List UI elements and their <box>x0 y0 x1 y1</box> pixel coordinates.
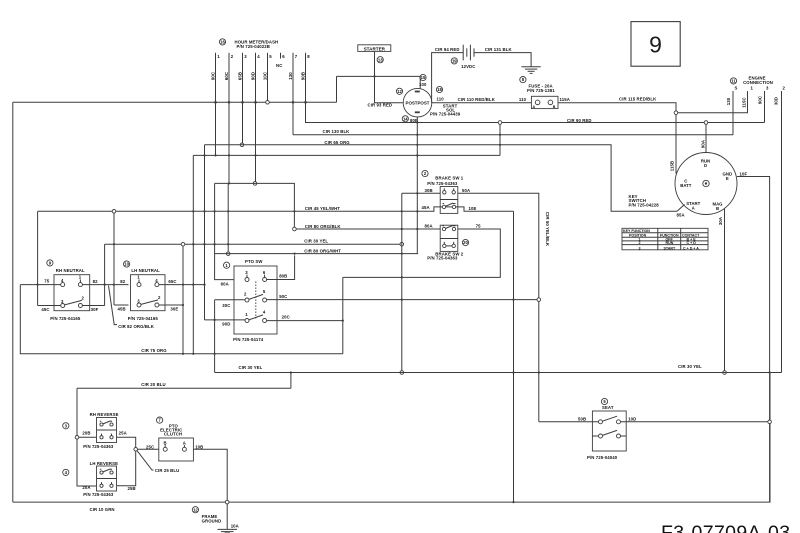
junction 30F riser/82 wire <box>104 284 106 286</box>
wire 45C riser from CIR45 to 45C wire <box>37 211 39 305</box>
wire 30E from LH neutral <box>159 304 183 306</box>
svg-text:P/N 725-04228: P/N 725-04228 <box>629 203 660 208</box>
key switch S1 body <box>675 153 737 215</box>
svg-text:CIR 10 GRN: CIR 10 GRN <box>90 507 115 512</box>
wire bus feed to solenoid top <box>337 76 421 88</box>
solenoid bottom vertical wire <box>416 117 418 254</box>
leader line CIR 25 BLU <box>137 451 154 470</box>
junction solenoid vertical/horiz2 <box>416 154 418 156</box>
battery B1 12VDC <box>461 45 475 69</box>
wire 25 node down to LH reverse 25B <box>117 451 136 486</box>
svg-text:50B: 50B <box>578 417 586 422</box>
hour meter pin 2 <box>229 53 234 103</box>
wire 75 from brake sw2 down-left <box>343 229 501 277</box>
junction 75org/183 <box>182 353 184 355</box>
svg-text:110: 110 <box>437 97 445 102</box>
circled 20 (brake sw 2) <box>462 239 468 245</box>
wire pin4 down to node on horiz3 <box>255 102 257 181</box>
junction 10grn/10E vertical <box>512 501 514 503</box>
wire x214 vertical horiz3 to 60A <box>215 183 234 279</box>
engine connection label <box>743 76 773 86</box>
svg-text:P/N 725-04363: P/N 725-04363 <box>83 492 114 497</box>
LH neutral switch body <box>131 275 166 311</box>
wire 65C from LH neutral <box>159 284 205 286</box>
wire 50C from pin5 to 50 node <box>267 299 537 301</box>
svg-text:CIR 115 RED/BLK: CIR 115 RED/BLK <box>619 96 657 101</box>
svg-text:D: D <box>704 163 707 168</box>
svg-text:C + D: C + D <box>687 241 697 245</box>
svg-text:30A: 30A <box>718 217 723 225</box>
bus junction pin2 <box>228 101 231 104</box>
circled 9 (RH neutral) <box>47 260 53 266</box>
junction 75org/193 <box>192 353 194 355</box>
seat switch body <box>592 411 626 451</box>
svg-text:GROUND: GROUND <box>202 519 222 524</box>
bus junction pin4 <box>254 101 257 104</box>
junction 65C/183 <box>182 284 184 286</box>
svg-text:P/N 725-04439: P/N 725-04439 <box>430 111 461 116</box>
circled 5 (seat) <box>601 398 607 404</box>
junction 45/pin2 vertical <box>227 210 229 212</box>
svg-text:CIR 30 YEL: CIR 30 YEL <box>239 365 263 370</box>
svg-text:115C: 115C <box>742 97 747 107</box>
wire 20 BLU down to reverse switches <box>77 388 97 486</box>
open node pin3 on CIR 65 <box>240 143 244 147</box>
junction 45/ladder1 <box>192 210 194 212</box>
open node pin2 end on 80 ORG/WHT <box>226 252 230 256</box>
svg-text:20B: 20B <box>82 431 90 436</box>
svg-text:10F: 10F <box>740 171 748 176</box>
junction riser/65 org <box>499 144 501 146</box>
svg-text:RH REVERSE: RH REVERSE <box>90 412 119 417</box>
svg-text:90B: 90B <box>300 72 305 80</box>
engine pin S <box>733 86 738 135</box>
svg-text:30B: 30B <box>425 188 433 193</box>
svg-text:25B: 25B <box>128 486 136 491</box>
wire 90A node down to key switch top <box>705 124 707 152</box>
label FRAME GROUND <box>202 514 222 524</box>
open node 30 yel right end <box>400 242 404 246</box>
wire 10B from clutch to ground drop <box>193 449 227 500</box>
svg-text:BRAKE SW 1: BRAKE SW 1 <box>435 175 463 180</box>
svg-text:90A: 90A <box>700 140 705 148</box>
svg-text:25C: 25C <box>146 444 154 449</box>
wire ladder x193 (horiz2 down to 75 org) <box>192 155 194 353</box>
junction 45/ladder2 <box>203 210 205 212</box>
frame ground symbol <box>218 529 238 533</box>
svg-text:B: B <box>164 440 167 445</box>
svg-text:PTO SW: PTO SW <box>245 259 263 264</box>
wire horiz3 <box>215 183 295 227</box>
svg-text:100: 100 <box>419 82 427 87</box>
open node 30A on 30 YEL <box>723 371 727 375</box>
svg-text:30C: 30C <box>222 303 230 308</box>
circled 14 <box>402 116 408 122</box>
junction x214/75org <box>214 353 216 355</box>
svg-text:10D: 10D <box>628 417 636 422</box>
brake switch 1 body <box>440 187 458 214</box>
junction 80wht/pto riser <box>294 253 296 255</box>
svg-text:LH REVERSE: LH REVERSE <box>90 461 118 466</box>
svg-text:12: 12 <box>397 89 402 94</box>
svg-text:60C: 60C <box>224 72 229 80</box>
open node 30 yel left end <box>181 242 185 246</box>
engine pin 1 <box>751 86 754 91</box>
svg-text:50C: 50C <box>279 294 287 299</box>
junction x214/90D <box>214 319 216 321</box>
junction 30B riser/CIR45 <box>401 210 403 212</box>
junction 45/214 vertical <box>214 210 216 212</box>
wire 30F to riser <box>82 305 104 307</box>
open node CIR 80 ORG/BLK start <box>293 227 297 231</box>
svg-text:RUN: RUN <box>666 241 674 245</box>
wire 115 node to engine pin 1 <box>678 91 748 113</box>
battery ground symbol <box>521 67 540 74</box>
svg-text:12VDC: 12VDC <box>461 64 475 69</box>
svg-text:CIR 94 RED: CIR 94 RED <box>435 47 460 52</box>
junction horiz2/pin2 <box>228 154 230 156</box>
svg-text:CIR 45 YEL/WHT: CIR 45 YEL/WHT <box>305 206 340 211</box>
junction 80blk/solenoid vertical <box>416 228 418 230</box>
svg-text:115A: 115A <box>560 97 570 102</box>
svg-text:45C: 45C <box>41 307 49 312</box>
PTO electric clutch body <box>159 438 194 461</box>
wire 10E vertical down to CIR 10 GRN <box>513 211 515 502</box>
svg-text:16: 16 <box>220 40 225 45</box>
junction 45B riser/30yel <box>113 243 115 245</box>
junction 130/500 riser <box>499 134 501 136</box>
wire pin7 down and right: CIR 130 BLK start <box>292 102 294 134</box>
svg-text:CLUTCH: CLUTCH <box>164 431 182 436</box>
svg-text:P/N 725-04363: P/N 725-04363 <box>83 444 114 449</box>
wire solenoid right post to fuse <box>432 102 532 104</box>
open node 20B <box>75 436 79 440</box>
brake switch 2 body <box>440 225 458 251</box>
junction 30B riser/75 link <box>401 276 403 278</box>
svg-text:NC: NC <box>276 63 282 68</box>
circled 3 (RH reverse) <box>63 423 69 429</box>
svg-text:30E: 30E <box>170 306 178 311</box>
svg-text:10: 10 <box>124 262 129 267</box>
svg-text:12: 12 <box>193 507 198 512</box>
junction solenoid vertical/65 org <box>416 144 418 146</box>
svg-text:STARTER: STARTER <box>364 46 386 51</box>
left main vertical wire x=12.8 <box>12 102 14 502</box>
svg-text:B: B <box>553 105 556 109</box>
svg-text:CIR 93 RED: CIR 93 RED <box>368 103 393 108</box>
hour meter pin 4 <box>256 53 261 103</box>
circled 16 (hour meter) <box>219 39 225 45</box>
junction 30B wire/solenoid vertical <box>416 192 418 194</box>
wire 20C from pin4 to 75 riser <box>267 320 343 322</box>
circled 15 <box>420 74 426 80</box>
leader line CIR 82 ORG/BLK <box>109 286 118 325</box>
hour meter pin 5 <box>268 53 273 101</box>
open node pin4 on horiz3 <box>253 182 257 186</box>
junction 30B riser/50C <box>401 299 403 301</box>
junction 30yel/ladder1 <box>192 243 194 245</box>
svg-text:10E: 10E <box>469 206 477 211</box>
circled 2 (brake sw 1) <box>422 170 428 176</box>
fuse F1 <box>531 96 558 109</box>
circled 12 <box>396 88 402 94</box>
wire 30C from x214 to pin2 <box>215 299 245 301</box>
wire CIR 90 RED bus <box>417 122 764 124</box>
svg-text:90D: 90D <box>222 321 230 326</box>
svg-text:CIR 75 ORG: CIR 75 ORG <box>141 348 167 353</box>
svg-text:18: 18 <box>437 87 442 92</box>
open node 115 split <box>674 111 678 115</box>
wire pin2 continuation to node <box>227 183 229 252</box>
bus junction pin3 <box>241 101 244 104</box>
svg-text:A: A <box>533 105 536 109</box>
svg-text:CIR 131 BLK: CIR 131 BLK <box>485 47 513 52</box>
svg-text:CIR 50 YEL/BLK: CIR 50 YEL/BLK <box>545 212 550 247</box>
svg-text:10A: 10A <box>231 523 239 528</box>
junction horiz2/pin4 riser <box>254 154 256 156</box>
main top bus wire y=102.3 <box>13 101 337 103</box>
svg-text:2: 2 <box>639 241 641 245</box>
wire MAG B down to 30 YEL <box>724 209 726 371</box>
wire frame ground drop <box>226 504 228 530</box>
svg-text:P/N 725-04165: P/N 725-04165 <box>128 316 159 321</box>
svg-text:82: 82 <box>93 279 98 284</box>
RH reverse switch body <box>97 418 117 443</box>
RH neutral switch body <box>54 275 90 311</box>
starter box <box>358 45 391 52</box>
circled 12 (frame ground) <box>192 507 198 513</box>
junction horiz3/pin2 <box>228 182 230 184</box>
svg-text:10C: 10C <box>262 72 267 80</box>
svg-text:20C: 20C <box>282 315 290 320</box>
svg-text:P/N 725-04363: P/N 725-04363 <box>427 255 458 260</box>
svg-text:P/N 725-04022B: P/N 725-04022B <box>237 44 270 49</box>
wire 30 yel left riser down to RH neutral 30F <box>104 244 106 305</box>
junction 45/solenoid vertical <box>416 210 418 212</box>
wire 90D from ladder to pin1 <box>205 319 246 321</box>
junction horiz2/pin1 <box>214 154 216 156</box>
svg-text:E: E <box>726 176 729 181</box>
svg-text:CIR 110 RED/BLK: CIR 110 RED/BLK <box>458 97 496 102</box>
wire 30B vertical down to 30 yel lower node <box>401 193 403 370</box>
key function table <box>622 228 708 250</box>
start solenoid U <box>403 88 432 117</box>
PTO switch body <box>234 266 277 334</box>
svg-text:P/N 725-1381: P/N 725-1381 <box>527 88 555 93</box>
bus junction pin8 <box>304 101 307 104</box>
engine pin 2 <box>782 86 786 373</box>
wire pin3 down to 65 ORG node <box>242 102 244 143</box>
open node 30B riser on 30 yel lower <box>400 371 404 375</box>
wire 45B riser <box>113 213 115 305</box>
svg-text:B: B <box>716 206 719 211</box>
svg-text:15: 15 <box>421 75 426 80</box>
svg-text:F3-07709A-03: F3-07709A-03 <box>661 522 790 533</box>
hour meter pin 8 <box>306 53 311 103</box>
label FUSE - 20A P/N 725-1381 <box>527 83 555 93</box>
wire pin1 down to horiz2 <box>215 102 217 155</box>
junction 30yel/pin2 vertical <box>227 243 229 245</box>
wire CIR 80 ORG/BLK <box>296 228 440 230</box>
junction 10E/30yel lower <box>512 371 514 373</box>
junction 75/45C riser <box>37 284 39 286</box>
junction x193/65C <box>192 284 194 286</box>
svg-text:RH NEUTRAL: RH NEUTRAL <box>56 268 85 273</box>
svg-text:11: 11 <box>731 79 736 84</box>
junction x183/30E <box>182 304 184 306</box>
junction solenoid vertical/130 blk <box>416 134 418 136</box>
wire 20 BLU riser <box>290 373 292 389</box>
battery feed wire from solenoid right post up <box>432 53 464 103</box>
svg-text:60A: 60A <box>221 282 229 287</box>
wire CIR 80 ORG/WHT <box>215 253 418 255</box>
svg-text:C + D + A: C + D + A <box>683 246 699 250</box>
circled 11 (engine connection) <box>730 78 736 84</box>
open node 90 at key switch riser <box>704 121 708 125</box>
wire bus riser to starter feed <box>336 76 338 102</box>
svg-text:9: 9 <box>649 32 662 58</box>
wire CIR 20 BLU <box>77 387 291 389</box>
svg-text:P/N 725-04040: P/N 725-04040 <box>587 455 618 460</box>
circled 4 (LH reverse) <box>63 469 69 475</box>
wire 25A from RH reverse to node <box>117 437 136 447</box>
circled 19 (battery) <box>451 58 457 64</box>
hour meter pin 6 NC <box>276 53 285 68</box>
svg-text:S: S <box>735 86 738 91</box>
svg-text:20: 20 <box>463 240 468 245</box>
junction x204/65C <box>203 284 205 286</box>
open node 90 at x500 <box>498 121 502 125</box>
label BRAKE SW 1 <box>427 175 463 186</box>
svg-text:LH NEUTRAL: LH NEUTRAL <box>131 268 160 273</box>
svg-text:85A: 85A <box>677 212 685 217</box>
wire 80B from pto pin6 to 80wht <box>267 255 295 279</box>
svg-text:130: 130 <box>288 72 293 80</box>
svg-text:START: START <box>664 246 677 250</box>
svg-text:110: 110 <box>519 97 527 102</box>
hour meter/dash connector label <box>235 39 279 49</box>
svg-text:75: 75 <box>476 224 481 229</box>
svg-text:CIR 65 ORG: CIR 65 ORG <box>324 140 350 145</box>
svg-text:CIR 30 YEL: CIR 30 YEL <box>678 364 702 369</box>
bus junction pin1 <box>214 101 217 104</box>
open node 10D on right drop <box>768 420 772 424</box>
wire fuse B to engine conn (CIR 115) <box>558 103 676 111</box>
label KEY SWITCH P/N 725-04228 <box>629 194 660 208</box>
wire starter down to solenoid left post <box>375 51 404 102</box>
open node frame ground <box>225 500 229 504</box>
junction x204/horiz2 <box>203 154 205 156</box>
wire CIR 30 YEL lower <box>215 372 782 374</box>
circled 7 (PTO clutch) <box>157 417 163 423</box>
circled 13 (starter) <box>377 57 383 63</box>
label START SOL P/N 725-04439 <box>430 103 461 116</box>
svg-text:CIR 80 ORG/WHT: CIR 80 ORG/WHT <box>304 249 341 254</box>
junction solenoid vertical/pin8 wire <box>416 121 418 123</box>
wire riser x500 node to horiz2 <box>499 124 501 155</box>
junction 75 riser/20C <box>342 320 344 322</box>
wire CIR 30 YEL upper <box>105 243 400 245</box>
bus junction pin7 <box>292 101 295 104</box>
svg-text:14: 14 <box>403 116 408 121</box>
wire 25C into clutch <box>138 448 159 450</box>
wire CIR 65 ORG <box>205 145 678 212</box>
open node 25 split <box>134 448 138 452</box>
svg-text:25A: 25A <box>119 431 127 436</box>
svg-text:90C: 90C <box>758 96 763 104</box>
wire 20B into RH reverse <box>79 436 97 438</box>
svg-text:A: A <box>692 206 695 211</box>
svg-text:CIR 25 BLU: CIR 25 BLU <box>155 468 179 473</box>
svg-text:20A: 20A <box>82 485 90 490</box>
svg-text:130: 130 <box>726 97 731 105</box>
wire 30B into brake sw1 <box>402 192 440 194</box>
svg-text:POSTPOST: POSTPOST <box>406 101 430 106</box>
wire 82 between neutral switches <box>82 284 128 286</box>
wire 10D from seat to right drop <box>621 421 768 423</box>
svg-text:P/N 725-04174: P/N 725-04174 <box>233 337 264 342</box>
svg-text:30F: 30F <box>91 307 99 312</box>
wire 115B node down to key switch batt <box>675 115 677 174</box>
svg-text:82: 82 <box>120 279 125 284</box>
wire 85A diagonal to START A <box>677 205 685 212</box>
svg-text:65B: 65B <box>237 72 242 80</box>
svg-text:90C: 90C <box>210 72 215 80</box>
wire pin8 down and right to solenoid vertical <box>306 102 418 122</box>
svg-text:45A: 45A <box>422 205 430 210</box>
wire CIR 45 YEL/WHT <box>38 207 514 211</box>
svg-text:P/N 725-04165: P/N 725-04165 <box>50 316 81 321</box>
wire CIR 75 ORG <box>20 285 343 354</box>
hour meter pin 1 <box>216 53 221 103</box>
junction 82/45B riser <box>113 284 115 286</box>
open node 50C on 50 vertical <box>537 298 541 302</box>
svg-text:P/N 725-04363: P/N 725-04363 <box>427 181 458 186</box>
junction 30yel lower/20blu riser <box>290 371 292 373</box>
svg-text:CONNECTION: CONNECTION <box>743 80 773 85</box>
svg-text:90D: 90D <box>250 72 255 80</box>
svg-text:10B: 10B <box>195 444 203 449</box>
wire CIR 130 BLK bus <box>293 134 733 136</box>
junction 30yel/214 vertical <box>214 243 216 245</box>
svg-text:19: 19 <box>452 59 457 64</box>
junction 65C/193 <box>192 284 194 286</box>
wire x214 vertical 30C to 30yel lower <box>214 300 216 373</box>
svg-text:13: 13 <box>378 57 383 62</box>
box 9 <box>631 22 680 67</box>
engine pin 3 <box>765 86 770 123</box>
svg-text:KEY FUNCTION: KEY FUNCTION <box>623 229 650 233</box>
wire 75 into RH neutral <box>20 284 60 286</box>
circled 1 (PTO switch) <box>224 262 230 268</box>
wire ladder x204 (65 org down to 90D) <box>204 145 206 320</box>
label BRAKE SW 2 <box>427 251 463 260</box>
wire 50A from brake sw1 <box>458 193 539 421</box>
svg-text:SEAT: SEAT <box>602 405 614 410</box>
svg-text:CIR 82 ORG/BLK: CIR 82 ORG/BLK <box>118 324 155 329</box>
svg-text:CIR 20 BLU: CIR 20 BLU <box>141 382 165 387</box>
wire 45B into LH neutral <box>114 304 129 306</box>
wire ladder x183 (30 node down to 75 org) <box>182 246 184 354</box>
bus open node pin5 <box>266 101 270 105</box>
wire pin2 down to node on 80WHT line <box>228 102 230 183</box>
junction starter/bus feed <box>373 75 375 77</box>
hour meter pin 3 <box>243 53 248 103</box>
svg-text:50A: 50A <box>462 188 470 193</box>
svg-text:CIR 130 BLK: CIR 130 BLK <box>323 129 351 134</box>
wire battery to ground <box>474 53 531 67</box>
svg-text:45B: 45B <box>118 306 126 311</box>
